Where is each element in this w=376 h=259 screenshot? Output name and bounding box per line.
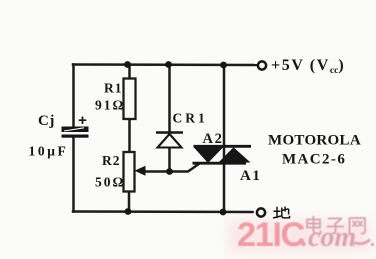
wire left lower <box>72 138 75 212</box>
node junction dot triac bottom <box>220 209 227 216</box>
capacitor Cj <box>62 117 89 138</box>
wire R2 bottom stub <box>128 192 131 212</box>
watermark 21IC.com logo <box>237 216 374 254</box>
wire triac vertical <box>223 65 226 212</box>
node junction dot triac top <box>220 62 227 69</box>
wire R1 top stub <box>128 65 131 80</box>
ground terminal circle <box>257 208 265 216</box>
watermark glyph 电 <box>307 217 321 234</box>
resistor R1 body <box>124 79 136 120</box>
svg-text:R1: R1 <box>104 81 123 96</box>
triac MAC2-6 <box>193 146 252 163</box>
watermark pale halo <box>228 220 370 252</box>
node junction dot CR1 top <box>165 61 172 68</box>
svg-text:R2: R2 <box>102 153 121 168</box>
node junction dot R2 bottom <box>125 208 132 215</box>
node junction dot gate wire / CR1 <box>166 168 173 175</box>
potentiometer R2 body <box>124 152 135 192</box>
wire diode CR1 branch vertical <box>168 65 171 172</box>
svg-text:A1: A1 <box>240 168 262 184</box>
wire gate from R2 wiper to triac <box>141 164 200 172</box>
potentiometer R2 wiper arrow <box>135 166 146 176</box>
diode CR1 <box>156 133 183 148</box>
wire R1-R2 middle stub <box>128 119 131 153</box>
watermark glyph 子 <box>328 219 344 234</box>
svg-text:A2: A2 <box>203 131 224 147</box>
node junction dot R1 top <box>124 61 131 68</box>
svg-text:10μF: 10μF <box>29 144 69 159</box>
wire top rail <box>73 63 256 66</box>
svg-text:CR1: CR1 <box>173 111 208 126</box>
svg-text:Cj: Cj <box>38 113 55 129</box>
svg-text:MAC2-6: MAC2-6 <box>282 152 346 168</box>
wire left upper <box>72 65 75 128</box>
watermark glyph 网 <box>350 218 366 234</box>
svg-text:50Ω: 50Ω <box>95 175 125 190</box>
svg-text:21IC: 21IC <box>237 216 304 254</box>
label 地 (ground, drawn glyph) <box>273 207 290 219</box>
+5V terminal circle <box>258 61 266 69</box>
wire bottom rail <box>73 210 253 213</box>
svg-text:91Ω: 91Ω <box>95 98 125 113</box>
svg-text:MOTOROLA: MOTOROLA <box>268 133 361 149</box>
